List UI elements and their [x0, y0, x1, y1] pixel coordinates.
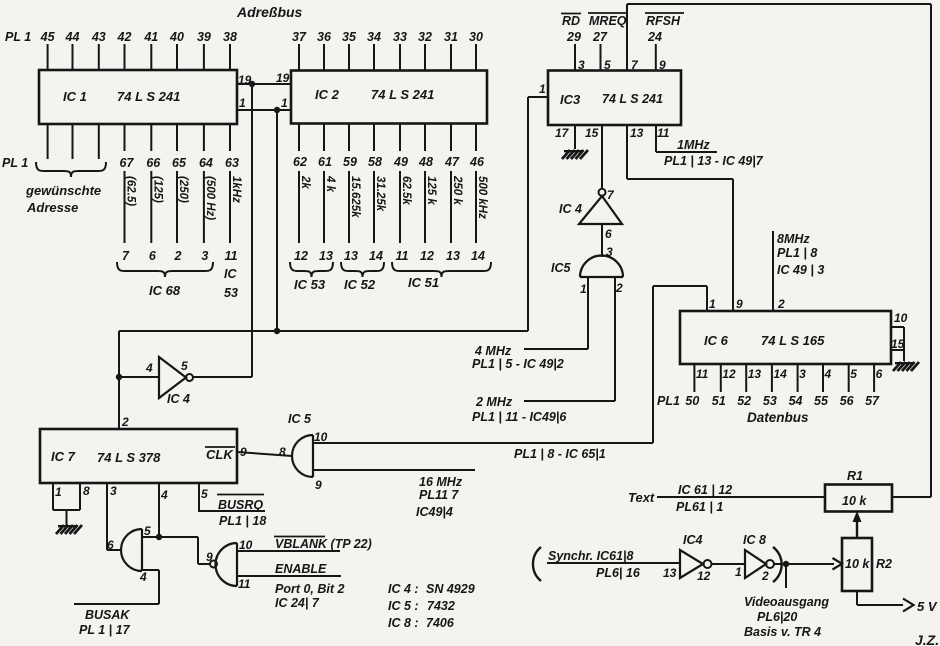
wire IC2 top pin 34	[373, 44, 375, 71]
wire IC1 top pin 45	[47, 44, 49, 70]
wire IC3 pin15 to inverter	[601, 125, 603, 189]
svg-text:66: 66	[146, 156, 161, 170]
svg-text:R1: R1	[847, 469, 863, 483]
wire IC6 bottom pin 13	[745, 364, 747, 392]
svg-text:64: 64	[199, 156, 213, 170]
wire IC2 bottom pin 49 stub	[399, 124, 401, 152]
wire IC2 bottom pin 59 stub	[348, 124, 350, 152]
svg-text:7406: 7406	[426, 616, 455, 630]
node brace IC 53	[290, 262, 333, 277]
gate U-IC5a AND up-facing	[580, 256, 623, 277]
wire IC6 bottom pin 5	[848, 364, 850, 392]
wire IC2 bottom pin 47 stub	[450, 124, 452, 152]
svg-text:Adreßbus: Adreßbus	[236, 4, 303, 20]
svg-text:34: 34	[367, 30, 381, 44]
ground IC6	[893, 362, 919, 371]
svg-text:13: 13	[630, 126, 644, 140]
svg-text:9: 9	[315, 478, 322, 492]
wire IC1 bottom address pin	[98, 124, 100, 159]
svg-text:10: 10	[239, 538, 253, 552]
svg-text:10 k: 10 k	[842, 494, 867, 508]
svg-text:7: 7	[122, 249, 130, 263]
svg-text:125 k: 125 k	[425, 176, 437, 205]
wire IC7 pins1+8 to ground	[52, 483, 54, 510]
wire IC2 frequency line 125 k	[424, 171, 426, 243]
svg-text:49: 49	[393, 155, 408, 169]
svg-text:IC 4 :: IC 4 :	[388, 582, 419, 596]
svg-text:4: 4	[145, 361, 153, 375]
wire IC6 bottom pin 3	[797, 364, 799, 392]
wire Synchr to IC4 inverter	[547, 562, 680, 564]
svg-text:IC 49 | 3: IC 49 | 3	[777, 263, 824, 277]
svg-text:29: 29	[566, 30, 581, 44]
inverter U-IC4c triangle	[680, 550, 703, 578]
svg-text:13: 13	[748, 367, 762, 381]
svg-text:1: 1	[735, 565, 742, 579]
svg-text:14: 14	[369, 249, 383, 263]
wire 8MHz to IC6 pin2	[772, 231, 774, 311]
svg-text:6: 6	[605, 227, 612, 241]
wire IC2 bottom pin 61 stub	[323, 124, 325, 152]
wire IC2 frequency line 250 k	[450, 171, 452, 243]
svg-text:IC 4: IC 4	[167, 392, 190, 406]
svg-text:5: 5	[181, 359, 188, 373]
svg-text:PL61 | 1: PL61 | 1	[676, 500, 723, 514]
svg-text:13: 13	[663, 566, 677, 580]
svg-text:40: 40	[169, 30, 184, 44]
svg-text:1: 1	[55, 485, 62, 499]
svg-text:IC3: IC3	[560, 92, 581, 107]
svg-text:54: 54	[789, 394, 803, 408]
wire IC1 top pin 41	[150, 44, 152, 70]
svg-text:1: 1	[539, 82, 546, 96]
wire IC1 top pin 40	[176, 44, 178, 70]
wire R2 bottom to 5V	[856, 591, 858, 605]
svg-text:12: 12	[294, 249, 308, 263]
svg-text:2: 2	[761, 569, 769, 583]
svg-text:5: 5	[604, 58, 611, 72]
wire IC2 top pin 30	[475, 44, 477, 71]
svg-text:4 k: 4 k	[324, 175, 336, 193]
svg-text:14: 14	[471, 249, 485, 263]
junction video output	[783, 561, 789, 567]
wire IC1 frequency line (500 Hz)	[203, 171, 205, 243]
svg-text:PL1 | 5 - IC 49|2: PL1 | 5 - IC 49|2	[472, 357, 564, 371]
svg-text:1: 1	[281, 96, 288, 110]
svg-text:5 V: 5 V	[917, 599, 938, 614]
svg-text:Videoausgang: Videoausgang	[744, 595, 829, 609]
svg-text:12: 12	[722, 367, 736, 381]
svg-text:43: 43	[91, 30, 106, 44]
wire IC3 pin3	[574, 44, 576, 71]
wire IC2 bottom pin 48 stub	[424, 124, 426, 152]
svg-text:RD: RD	[562, 14, 580, 28]
svg-text:74 L S 241: 74 L S 241	[602, 92, 663, 106]
svg-text:33: 33	[393, 30, 407, 44]
svg-text:IC 2: IC 2	[315, 87, 340, 102]
wire IC2 bottom pin 62 stub	[298, 124, 300, 152]
svg-text:31.25k: 31.25k	[374, 176, 386, 212]
svg-text:IC 52: IC 52	[344, 277, 376, 292]
svg-text:IC49|4: IC49|4	[416, 505, 453, 519]
wire IC2 top pin 33	[399, 44, 401, 71]
svg-text:38: 38	[223, 30, 237, 44]
wire IC1 bottom pin 65 stub	[176, 124, 178, 151]
node brace IC 52	[341, 262, 384, 277]
junction inverter input tee	[116, 374, 122, 380]
wire 2MHz stub	[524, 400, 615, 402]
wire IC2 top pin 31	[450, 44, 452, 71]
svg-text:PL6|20: PL6|20	[757, 610, 797, 624]
svg-text:56: 56	[840, 394, 855, 408]
svg-text:PL11 7: PL11 7	[419, 488, 459, 502]
svg-text:IC4: IC4	[683, 533, 703, 547]
svg-text:4: 4	[824, 367, 832, 381]
wire IC3 pin5	[600, 44, 602, 71]
svg-text:9: 9	[659, 58, 666, 72]
svg-text:11: 11	[396, 249, 409, 263]
IC U3 box 74LS241	[548, 71, 681, 126]
wire gate input10 PL118 long	[313, 442, 653, 444]
svg-text:13: 13	[319, 249, 333, 263]
IC U2 box 74LS241	[291, 71, 487, 124]
svg-text:Port 0, Bit 2: Port 0, Bit 2	[275, 582, 345, 596]
svg-text:2: 2	[121, 415, 129, 429]
wire IC1 top pin 39	[203, 44, 205, 70]
wire IC2 bottom pin 46 stub	[475, 124, 477, 152]
svg-text:12: 12	[697, 569, 711, 583]
wire BUSAK stub	[74, 603, 159, 605]
svg-text:250 k: 250 k	[451, 175, 463, 205]
svg-text:62.5k: 62.5k	[400, 176, 412, 205]
svg-text:500 kHz: 500 kHz	[476, 176, 488, 219]
wire R2 wiper arrow to R1	[856, 519, 858, 538]
svg-text:13: 13	[446, 249, 460, 263]
wire IC6 bottom pin 14	[771, 364, 773, 392]
svg-text:8: 8	[279, 445, 286, 459]
svg-text:Synchr. IC61|8: Synchr. IC61|8	[548, 549, 634, 563]
node brace IC 68	[117, 262, 213, 277]
IC U1 box 74LS241	[39, 70, 237, 124]
wire IC1 bottom pin 64 stub	[203, 124, 205, 151]
wire IC7 CLK pin9 to gate	[237, 452, 292, 456]
svg-text:53: 53	[224, 286, 238, 300]
svg-text:Datenbus: Datenbus	[747, 410, 809, 425]
svg-text:PL1: PL1	[657, 394, 680, 408]
svg-text:15: 15	[891, 337, 905, 351]
svg-text:24: 24	[647, 30, 662, 44]
svg-text:2: 2	[174, 249, 182, 263]
svg-text:16 MHz: 16 MHz	[419, 475, 463, 489]
svg-text:9: 9	[206, 550, 213, 564]
wire IC1 frequency line (250)	[176, 171, 178, 243]
svg-text:(500 Hz): (500 Hz)	[204, 176, 216, 220]
svg-text:5: 5	[850, 367, 857, 381]
wire IC4a output to IC5a	[601, 224, 603, 257]
IC U6 box 74LS165	[680, 311, 891, 364]
gate U-IC8a inverting left-facing	[210, 561, 217, 568]
wire gate input5	[142, 536, 198, 538]
svg-text:6: 6	[149, 249, 157, 263]
junction pin4 gate5	[156, 534, 162, 540]
node Synchr label with paren	[533, 547, 541, 581]
wire IC1 frequency line 1kHz	[229, 171, 231, 243]
wire IC1 frequency line (125)	[150, 171, 152, 243]
svg-text:PL6| 16: PL6| 16	[596, 566, 641, 580]
svg-text:15: 15	[585, 126, 599, 140]
svg-text:11: 11	[696, 367, 709, 381]
svg-text:4 MHz: 4 MHz	[474, 344, 512, 358]
svg-text:10: 10	[894, 311, 908, 325]
svg-text:55: 55	[814, 394, 829, 408]
wire IC1 bottom address pin	[72, 124, 74, 159]
node brace IC 51	[392, 262, 491, 277]
wire IC1 bottom pin 67 stub	[124, 124, 126, 151]
svg-text:74 L S 241: 74 L S 241	[371, 87, 434, 102]
wire gate input4 to BUSAK	[142, 569, 159, 571]
wire gate input9 16MHz stub	[313, 469, 475, 471]
svg-text:Basis v. TR 4: Basis v. TR 4	[744, 625, 821, 639]
wire IC7 pin5 BUSRQ stub	[198, 483, 200, 511]
wire IC3 pin17 to ground	[574, 125, 576, 149]
svg-text:IC 8 :: IC 8 :	[388, 616, 419, 630]
wire IC6 bottom pin 12	[720, 364, 722, 392]
wire 4MHz stub	[524, 348, 588, 350]
svg-text:(250): (250)	[177, 176, 189, 203]
svg-text:9: 9	[240, 445, 247, 459]
svg-text:19: 19	[276, 71, 290, 85]
wire IC3 pin9	[655, 44, 657, 71]
wire IC1 top pin 42	[124, 44, 126, 70]
wire IC2 frequency line 31.25k	[373, 171, 375, 243]
junction pin1 net to enable bus	[274, 328, 280, 334]
svg-text:47: 47	[444, 155, 460, 169]
wire enable bus horizontal	[119, 330, 528, 332]
svg-text:8MHz: 8MHz	[777, 232, 810, 246]
svg-text:3: 3	[110, 484, 117, 498]
svg-text:1MHz: 1MHz	[677, 138, 710, 152]
inverter U-IC4b triangle	[159, 357, 186, 398]
svg-text:62: 62	[293, 155, 307, 169]
svg-text:1kHz: 1kHz	[230, 176, 242, 203]
svg-text:4: 4	[160, 488, 168, 502]
wire IC1 bottom pin 63 stub	[229, 124, 231, 151]
svg-text:2: 2	[615, 281, 623, 295]
svg-text:53: 53	[763, 394, 777, 408]
wire IC4c to IC8b	[712, 563, 746, 565]
svg-text:(125): (125)	[151, 176, 163, 203]
wire inverter IC4 input	[119, 376, 159, 378]
svg-text:74 L S 378: 74 L S 378	[97, 450, 161, 465]
svg-text:2: 2	[777, 297, 785, 311]
ground IC7	[56, 525, 82, 534]
wire inverter output up to pin19 net	[251, 84, 253, 377]
wire IC2 frequency line 2k	[298, 171, 300, 243]
svg-text:59: 59	[343, 155, 357, 169]
wire IC7 pin4 down	[158, 483, 160, 537]
svg-text:11: 11	[225, 249, 238, 263]
svg-text:39: 39	[197, 30, 211, 44]
svg-text:PL 1 | 17: PL 1 | 17	[79, 623, 131, 637]
wire IC3 pin11 1MHz stub	[655, 125, 657, 152]
svg-text:3: 3	[201, 249, 208, 263]
gate U-IC5c OR left-facing output6	[121, 529, 142, 571]
svg-text:13: 13	[344, 249, 358, 263]
svg-text:5: 5	[144, 524, 151, 538]
wire IC6 bottom pin 6	[873, 364, 875, 392]
wire IC2 top pin 35	[348, 44, 350, 71]
svg-text:BUSRQ: BUSRQ	[218, 498, 263, 512]
wire video node to R2 wiper	[774, 563, 834, 565]
svg-text:1: 1	[239, 96, 246, 110]
gate U-IC5b OR left-facing output8	[292, 435, 313, 477]
svg-text:IC 6: IC 6	[704, 333, 729, 348]
svg-text:42: 42	[117, 30, 132, 44]
svg-text:IC 8: IC 8	[743, 533, 766, 547]
resistor R2 10k	[842, 538, 872, 591]
svg-text:PL1 | 13 - IC 49|7: PL1 | 13 - IC 49|7	[664, 154, 764, 168]
svg-text:67: 67	[120, 156, 135, 170]
svg-text:50: 50	[685, 394, 699, 408]
svg-text:1: 1	[709, 297, 716, 311]
svg-text:58: 58	[368, 155, 382, 169]
svg-text:CLK: CLK	[206, 447, 234, 462]
wire IC5a input1 to 4MHz	[587, 277, 589, 349]
svg-text:ENABLE: ENABLE	[275, 562, 327, 576]
wire enable bus down to IC7 pin2	[118, 331, 120, 429]
svg-text:31: 31	[444, 30, 458, 44]
wire IC3 pin7 up and top bus to right edge	[626, 4, 628, 71]
svg-text:51: 51	[712, 394, 726, 408]
wire pin1 net IC1 to IC2	[237, 109, 291, 111]
wire IC6 pin1 from PL118 net	[706, 286, 708, 311]
wire IC1 top pin 44	[72, 44, 74, 70]
svg-text:PL1 | 18: PL1 | 18	[219, 514, 266, 528]
svg-text:7432: 7432	[427, 599, 455, 613]
wire IC1 top pin 38	[229, 44, 231, 70]
svg-text:IC 24| 7: IC 24| 7	[275, 596, 320, 610]
svg-text:61: 61	[318, 155, 332, 169]
wire to IC8 gate input9	[197, 537, 199, 564]
wire IC1 bottom pin 66 stub	[150, 124, 152, 151]
svg-text:RFSH: RFSH	[646, 14, 681, 28]
wire IC7 pin3 to gate output6	[106, 483, 108, 550]
svg-text:IC 4: IC 4	[559, 202, 582, 216]
svg-text:44: 44	[65, 30, 80, 44]
svg-text:Text: Text	[628, 490, 655, 505]
IC U7 box 74LS378	[40, 429, 237, 483]
svg-text:11: 11	[238, 577, 251, 591]
svg-text:5: 5	[201, 487, 208, 501]
svg-text:63: 63	[225, 156, 239, 170]
svg-text:SN 4929: SN 4929	[426, 582, 475, 596]
wire IC1 frequency line (62.5)	[124, 171, 126, 243]
svg-text:IC5: IC5	[551, 261, 572, 275]
svg-text:41: 41	[143, 30, 158, 44]
svg-text:46: 46	[469, 155, 485, 169]
junction pin19 net	[249, 81, 255, 87]
svg-text:2k: 2k	[299, 175, 311, 189]
svg-text:36: 36	[317, 30, 332, 44]
inverter U-IC8b triangle	[745, 550, 766, 578]
svg-text:17: 17	[555, 126, 570, 140]
svg-text:BUSAK: BUSAK	[85, 608, 130, 622]
svg-text:(62.5): (62.5)	[125, 176, 137, 206]
wire IC1 top pin 43	[98, 44, 100, 70]
svg-text:32: 32	[418, 30, 432, 44]
svg-text:IC 5: IC 5	[288, 412, 312, 426]
wire IC2 top pin 32	[424, 44, 426, 71]
svg-text:6: 6	[107, 538, 114, 552]
svg-text:PL 1: PL 1	[2, 156, 28, 170]
wire pin19 net IC1 to IC2	[237, 83, 291, 85]
junction pin1 net	[274, 107, 280, 113]
svg-text:6: 6	[876, 367, 883, 381]
svg-text:IC 5 :: IC 5 :	[388, 599, 419, 613]
svg-text:45: 45	[40, 30, 56, 44]
svg-text:PL 1: PL 1	[5, 30, 31, 44]
svg-text:IC 1: IC 1	[63, 89, 87, 104]
svg-text:IC 53: IC 53	[294, 277, 326, 292]
svg-text:12: 12	[420, 249, 434, 263]
svg-text:30: 30	[469, 30, 483, 44]
svg-text:57: 57	[865, 394, 880, 408]
svg-text:IC 51: IC 51	[408, 275, 439, 290]
svg-text:R2: R2	[876, 557, 892, 571]
svg-text:74 L S 165: 74 L S 165	[761, 333, 825, 348]
wire IC2 frequency line 62.5k	[399, 171, 401, 243]
svg-text:11: 11	[657, 126, 670, 140]
svg-text:2 MHz: 2 MHz	[475, 395, 513, 409]
svg-text:74 L S 241: 74 L S 241	[117, 89, 180, 104]
svg-text:VBLANK (TP 22): VBLANK (TP 22)	[275, 537, 372, 551]
wire output11 ENABLE	[237, 575, 341, 577]
svg-text:4: 4	[139, 570, 147, 584]
svg-text:9: 9	[736, 297, 743, 311]
svg-text:65: 65	[172, 156, 187, 170]
svg-text:PL1 | 11 - IC49|6: PL1 | 11 - IC49|6	[472, 410, 567, 424]
svg-text:IC 68: IC 68	[149, 283, 181, 298]
svg-text:37: 37	[292, 30, 307, 44]
wire IC2 top pin 36	[323, 44, 325, 71]
svg-text:15.625k: 15.625k	[349, 176, 361, 218]
wire enable bus up to IC3 pin1	[527, 97, 529, 331]
svg-text:8: 8	[83, 484, 90, 498]
wire IC6 pins10-15 tied to ground	[891, 326, 904, 328]
svg-text:1: 1	[580, 282, 587, 296]
svg-text:PL1 | 8: PL1 | 8	[777, 246, 817, 260]
wire IC2 frequency line 500 kHz	[475, 171, 477, 243]
svg-text:14: 14	[773, 367, 787, 381]
wire IC6 bottom pin 4	[822, 364, 824, 392]
node closing paren	[773, 547, 782, 582]
svg-text:IC 7: IC 7	[51, 449, 76, 464]
wire output10 VBLANK	[237, 550, 340, 552]
svg-text:J.Z.: J.Z.	[915, 632, 939, 646]
wire IC5a input2 to 2MHz	[614, 277, 616, 401]
svg-text:IC 61 | 12: IC 61 | 12	[678, 483, 732, 497]
resistor R1 10k	[825, 485, 892, 512]
svg-text:PL1 | 8 - IC 65|1: PL1 | 8 - IC 65|1	[514, 447, 606, 461]
ground IC3 pin17	[562, 150, 588, 159]
svg-text:MREQ: MREQ	[589, 14, 627, 28]
wire pin1 net down	[276, 110, 278, 331]
svg-text:48: 48	[418, 155, 433, 169]
svg-text:35: 35	[342, 30, 357, 44]
svg-text:52: 52	[737, 394, 751, 408]
svg-text:10 k: 10 k	[845, 557, 870, 571]
wire IC2 top pin 37	[298, 44, 300, 71]
